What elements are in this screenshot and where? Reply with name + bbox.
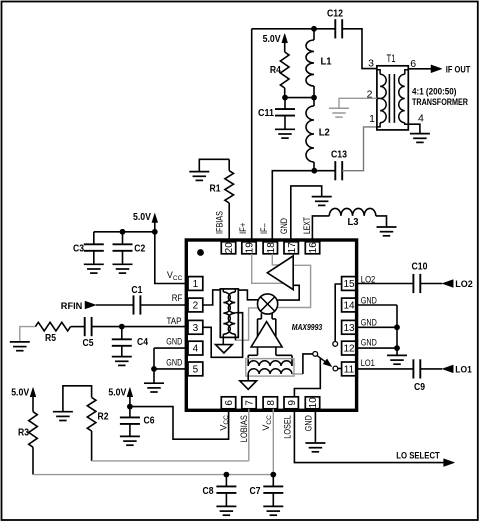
internal wire pin3 TAP to balun center tap	[203, 313, 243, 358]
svg-text:GND: GND	[361, 317, 377, 327]
wire C3/C2 rail	[94, 231, 155, 233]
capacitor C6	[129, 407, 131, 418]
capacitor C9	[412, 359, 414, 378]
svg-text:IF–: IF–	[259, 224, 269, 235]
svg-text:17: 17	[287, 242, 298, 254]
wire L3 to ground	[376, 216, 387, 227]
ground at C11	[275, 128, 295, 130]
RF balun left winding	[222, 289, 224, 292]
inductor L2	[313, 98, 315, 106]
wire pin16 LEXT to L3	[312, 216, 329, 242]
wire pin 9 LOSEL to LO SELECT	[294, 409, 443, 463]
T1 secondary winding	[405, 70, 409, 74]
wire top rail to C12	[252, 28, 336, 30]
svg-text:11: 11	[344, 365, 355, 376]
wire IF- riser pin 18 to C13	[272, 171, 335, 242]
svg-text:C4: C4	[137, 337, 148, 348]
pin 12 box	[342, 341, 357, 355]
inductor L3	[329, 208, 376, 216]
internal wire pin18 to IF amp	[272, 254, 279, 265]
ground at T1 pin4	[410, 133, 430, 135]
svg-text:LO2: LO2	[455, 279, 473, 290]
pin 5 box	[188, 362, 203, 376]
svg-text:5.0V: 5.0V	[263, 34, 281, 45]
pin label VCC (pin 6)	[218, 415, 230, 431]
capacitor C7	[272, 475, 274, 487]
wire C10 to LO2 arrow	[420, 283, 442, 285]
junction L1/L2	[311, 95, 317, 101]
svg-text:20: 20	[224, 242, 235, 254]
svg-text:3: 3	[193, 323, 199, 334]
pin 15 box	[342, 277, 357, 291]
svg-text:GND: GND	[303, 415, 313, 431]
svg-text:C7: C7	[250, 486, 261, 497]
LO balun top winding	[248, 361, 292, 366]
svg-text:15: 15	[343, 279, 355, 290]
svg-text:LO SELECT: LO SELECT	[396, 450, 440, 460]
svg-text:5.0V: 5.0V	[133, 212, 151, 223]
svg-text:2: 2	[193, 301, 199, 312]
resistor R4	[280, 52, 289, 88]
mixer circle	[258, 294, 278, 314]
wire T1 pin2 to ground	[339, 98, 377, 108]
svg-text:LO1: LO1	[361, 358, 375, 368]
svg-text:L3: L3	[348, 217, 359, 228]
LO amplifier triangle	[251, 322, 282, 347]
wire 5.0V to pin 6 VCC	[130, 407, 229, 440]
pin 10 box	[305, 397, 319, 409]
ground at C6	[120, 435, 140, 437]
wire pin 14 GND	[356, 304, 397, 306]
wire pin 10 GND to ground	[314, 409, 316, 443]
svg-text:C11: C11	[258, 108, 274, 119]
wire pin 11 LO1 to C9	[356, 368, 413, 370]
svg-text:C8: C8	[203, 486, 214, 497]
wire ground to R2	[63, 386, 92, 412]
junction pin 12 GND	[394, 345, 400, 351]
op-amp IF amplifier triangle	[267, 256, 293, 290]
svg-text:R2: R2	[98, 412, 109, 423]
junction C8	[224, 472, 230, 478]
svg-text:IF OUT: IF OUT	[446, 64, 471, 74]
internal wire mixer to RF balun lower	[236, 308, 258, 340]
wire T1 pin6 to IF OUT	[408, 68, 431, 70]
pin 18 box	[263, 242, 277, 254]
resistor R3	[29, 412, 38, 448]
svg-text:T1: T1	[387, 53, 396, 65]
svg-text:R5: R5	[45, 333, 56, 344]
capacitor C2	[122, 232, 124, 245]
wire C13 to T1 pin1	[342, 127, 377, 171]
svg-text:RFIN: RFIN	[61, 301, 83, 312]
svg-text:GND: GND	[361, 295, 377, 305]
capacitor C13	[334, 161, 336, 180]
wire pins 4/5 to ground	[154, 347, 188, 349]
svg-text:IFBIAS: IFBIAS	[215, 211, 225, 234]
svg-text:VCC: VCC	[167, 270, 183, 282]
wire pin 8 VCC riser	[272, 409, 274, 475]
resistor R5	[35, 322, 70, 331]
svg-text:GND: GND	[166, 358, 182, 368]
switch contact LO2 side	[333, 342, 338, 347]
internal wire pin2 RF to balun	[203, 290, 221, 305]
svg-text:RF: RF	[172, 293, 183, 303]
svg-text:C1: C1	[131, 285, 142, 296]
LO balun ground lead + arrow	[247, 374, 249, 381]
inductor L1	[313, 29, 315, 40]
arrow LO2 input	[442, 280, 453, 288]
svg-text:VCC: VCC	[261, 415, 273, 431]
switch lever with arrow	[317, 355, 330, 365]
ground at C4	[112, 356, 132, 358]
capacitor C3	[93, 232, 95, 245]
svg-text:MAX9993: MAX9993	[292, 323, 323, 332]
capacitor C4	[121, 327, 123, 340]
pin 16 box	[305, 242, 319, 254]
wire pin 12 GND	[356, 347, 397, 349]
capacitor C8	[225, 475, 227, 487]
svg-text:C13: C13	[331, 150, 347, 161]
svg-text:LOBIAS: LOBIAS	[239, 415, 249, 442]
svg-text:C3: C3	[73, 244, 84, 255]
junction C2	[120, 229, 126, 235]
svg-text:C9: C9	[414, 382, 425, 393]
svg-text:LEXT: LEXT	[302, 217, 312, 234]
wire C1 to pin 2 RF	[140, 304, 188, 306]
wire R2 to LOBIAS rail	[91, 431, 93, 461]
svg-text:13: 13	[343, 323, 355, 334]
svg-text:6: 6	[224, 400, 235, 406]
svg-text:C10: C10	[412, 261, 428, 272]
ground at R1	[189, 171, 209, 173]
pin 2 box	[188, 298, 203, 312]
internal wire IF amp right to mixer	[278, 265, 311, 307]
svg-text:R3: R3	[18, 428, 29, 439]
svg-text:4:1 (200:50): 4:1 (200:50)	[412, 86, 457, 96]
LO amp neck from mixer	[260, 313, 262, 319]
T1 core lines	[388, 74, 390, 123]
pin 19 box	[242, 242, 256, 254]
wire R5 to ground	[20, 327, 36, 342]
ground at GND bus	[387, 354, 407, 356]
wire C9 to LO1 arrow	[420, 368, 442, 370]
wire R3 to bypass rail	[32, 447, 34, 474]
internal wire pin19 to IF amp	[252, 254, 285, 283]
T1 primary winding	[377, 70, 380, 74]
ground at L3	[377, 226, 397, 228]
capacitor C10	[412, 274, 414, 293]
arrow IF OUT	[431, 65, 442, 73]
svg-text:4: 4	[418, 113, 424, 125]
junction pins 4/5	[151, 366, 157, 372]
resistor R2	[87, 397, 96, 431]
svg-text:12: 12	[343, 344, 355, 355]
RF balun ground arrow	[216, 345, 233, 353]
ground at R2	[53, 411, 73, 413]
junction C6	[127, 404, 133, 410]
RF balun right winding	[234, 289, 236, 292]
ground at C2	[113, 263, 133, 265]
svg-text:C6: C6	[144, 416, 155, 427]
junction C4	[119, 324, 125, 330]
svg-text:8: 8	[266, 400, 277, 406]
svg-text:C5: C5	[83, 338, 94, 349]
svg-text:5.0V: 5.0V	[108, 387, 126, 398]
ground at C7	[263, 505, 283, 507]
capacitor C11	[284, 98, 286, 110]
internal wire switch to pin9 LOSEL	[294, 358, 320, 397]
svg-text:C12: C12	[327, 8, 343, 19]
LO balun box	[246, 359, 294, 377]
arrow LO SELECT	[444, 459, 455, 467]
junction pin 13 GND	[394, 324, 400, 330]
wire C5 to pin 3 TAP	[92, 326, 188, 328]
IC U1 MAX9993 outline	[186, 240, 356, 410]
svg-text:18: 18	[266, 242, 277, 254]
svg-text:3: 3	[368, 58, 374, 70]
junction L2 bottom	[311, 168, 317, 174]
bypass rail to C7/C8	[33, 474, 273, 476]
capacitor C1	[133, 295, 135, 314]
ground at C8	[216, 505, 236, 507]
ground at R5	[10, 341, 30, 343]
pin 11 box	[342, 362, 357, 376]
wire pin17 GND to ground	[291, 186, 322, 242]
pin 20 box	[221, 242, 235, 254]
wire VCC to pin 1	[155, 232, 188, 284]
wire pin 7 LOBIAS riser	[248, 409, 250, 461]
pin 7 box	[242, 397, 256, 409]
svg-text:C2: C2	[134, 244, 145, 255]
svg-text:IF+: IF+	[238, 223, 248, 234]
svg-text:L1: L1	[321, 57, 332, 68]
junction VCC rail	[152, 229, 158, 235]
pin 8 box	[263, 397, 277, 409]
svg-text:GND: GND	[166, 337, 182, 347]
wire C12 to T1 pin3	[342, 29, 377, 69]
pin-1 marker dot	[197, 249, 204, 256]
junction R4/C11	[282, 95, 288, 101]
svg-text:19: 19	[245, 242, 256, 254]
svg-text:16: 16	[308, 242, 319, 254]
pin 14 box	[342, 298, 357, 312]
svg-text:GND: GND	[279, 218, 289, 234]
transformer T1 box	[377, 66, 408, 130]
svg-text:LOSEL: LOSEL	[282, 415, 292, 439]
wire RFIN to C1	[96, 304, 134, 306]
switch pole	[313, 352, 318, 357]
junction L1 top	[311, 26, 317, 32]
pin 13 box	[342, 320, 357, 334]
capacitor C5	[84, 317, 86, 336]
wire R1 ground	[199, 159, 229, 171]
junction C7	[270, 472, 276, 478]
pin 1 box	[188, 277, 203, 291]
pin 4 box	[188, 341, 203, 355]
wire R5 to C5	[71, 326, 85, 328]
internal wire pin15 to switch contact	[335, 284, 341, 341]
wire R4 to L1	[285, 97, 314, 99]
svg-text:GND: GND	[361, 338, 377, 348]
arrow RFIN	[85, 301, 96, 309]
svg-text:10: 10	[308, 397, 319, 409]
internal wire RF balun upper to mixer	[238, 290, 258, 300]
pin 9 box	[284, 397, 298, 409]
svg-text:5.0V: 5.0V	[11, 387, 29, 398]
pin label VCC (pin 8)	[261, 415, 273, 431]
svg-text:LO1: LO1	[455, 364, 472, 375]
GND bus vertical	[396, 305, 398, 348]
wire pin 15 LO2 to C10	[356, 283, 413, 285]
ground at pin17	[312, 196, 332, 198]
RF balun T2 box	[220, 289, 238, 338]
pin 3 box	[188, 320, 203, 334]
LO balun output to switch	[292, 373, 303, 375]
svg-text:4: 4	[193, 344, 199, 355]
svg-text:5: 5	[193, 365, 199, 376]
svg-text:L2: L2	[319, 128, 330, 139]
wire pin 13 GND	[356, 326, 397, 328]
arrow LO1 input	[442, 365, 453, 373]
wire T1 pin4 to ground	[408, 124, 420, 133]
svg-text:1: 1	[193, 279, 199, 290]
svg-text:14: 14	[343, 301, 355, 312]
ground at pin 10	[305, 442, 325, 444]
svg-text:TAP: TAP	[167, 316, 182, 326]
svg-text:TRANSFORMER: TRANSFORMER	[412, 97, 468, 107]
ground at T1 pin2	[329, 107, 349, 109]
pin 17 box	[284, 242, 298, 254]
ground at C3	[84, 263, 104, 265]
svg-text:1: 1	[369, 113, 375, 125]
internal wire mixer to IF amp	[277, 285, 299, 300]
LO amp pedestal legs	[257, 347, 259, 355]
svg-text:R4: R4	[270, 65, 281, 76]
capacitor C12	[334, 19, 336, 38]
resistor R1	[228, 159, 230, 170]
svg-text:7: 7	[245, 400, 256, 406]
svg-text:R1: R1	[210, 184, 221, 195]
svg-text:9: 9	[287, 400, 298, 406]
wire IF+ riser pin 19 to top rail	[251, 29, 253, 242]
switch contact LO1 side	[333, 366, 338, 371]
LO balun bottom winding	[248, 369, 292, 374]
ground at pins 4/5	[144, 382, 164, 384]
pin 6 box	[221, 397, 235, 409]
